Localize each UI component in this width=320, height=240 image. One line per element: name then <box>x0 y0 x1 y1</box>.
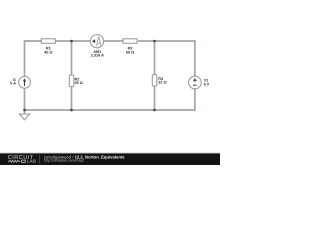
wire R2 branch vertical <box>71 41 73 110</box>
ground node junction <box>23 109 26 112</box>
wire I1 bottom to ground node <box>24 89 26 111</box>
wire V1 down to bottom-right corner <box>25 89 195 110</box>
wire R1 to node A <box>55 40 90 42</box>
svg-text:9 V: 9 V <box>204 83 210 87</box>
node A junction <box>70 40 73 43</box>
svg-text:LAB: LAB <box>27 159 36 164</box>
svg-text:5 A: 5 A <box>10 81 16 85</box>
svg-text:50 Ω: 50 Ω <box>126 51 134 55</box>
resistor R3 <box>123 39 137 55</box>
CircuitLab logo <box>8 155 40 164</box>
svg-text:http://circuitlab.com/c/4q2: http://circuitlab.com/c/4q2 <box>44 159 84 163</box>
svg-text:40 Ω: 40 Ω <box>44 51 52 55</box>
footer bar <box>0 153 220 165</box>
ground <box>19 110 29 120</box>
node R4 bottom junction <box>153 109 156 112</box>
svg-text:45 Ω: 45 Ω <box>75 81 83 85</box>
resistor R4 <box>152 75 166 87</box>
current source I1 <box>10 76 30 88</box>
wire AM1 to R3 <box>104 40 124 42</box>
wire R4 branch vertical <box>154 41 156 110</box>
svg-text:2.316 A: 2.316 A <box>91 54 104 58</box>
resistor R1 <box>41 39 55 55</box>
wire R3 to top-right corner down to V1 <box>138 41 195 76</box>
footer text <box>43 154 125 162</box>
node B junction <box>153 40 156 43</box>
resistor R2 <box>69 75 83 87</box>
wire top-left from corner to R1 <box>25 41 42 77</box>
voltage source V1 <box>189 76 210 89</box>
ammeter AM1 <box>90 35 104 58</box>
svg-text:22 Ω: 22 Ω <box>158 81 166 85</box>
node R2 bottom junction <box>70 109 73 112</box>
